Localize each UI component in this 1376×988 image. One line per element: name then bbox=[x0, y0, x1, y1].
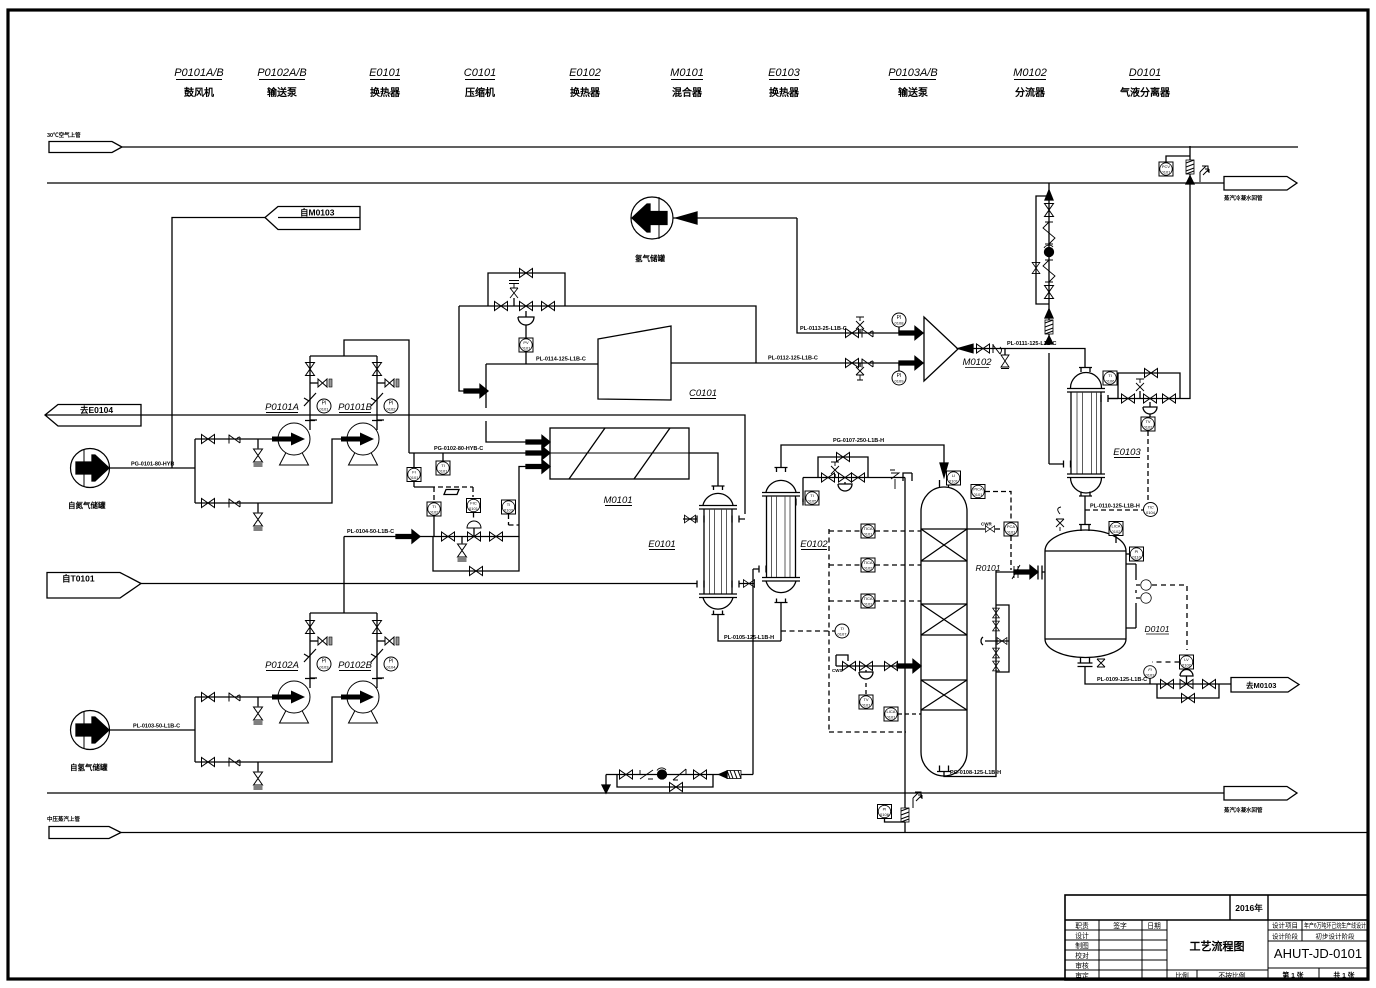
check valve bbox=[371, 649, 383, 662]
control valve with dome below bbox=[838, 473, 852, 491]
check valve bbox=[862, 329, 873, 338]
pipe branch to P0101B bbox=[195, 439, 347, 503]
valve bypass bbox=[837, 453, 850, 462]
instrument TI0103 bbox=[502, 500, 520, 525]
pump P0101B bbox=[338, 402, 379, 465]
tank 自氢气储罐 bbox=[70, 711, 110, 773]
svg-text:TV: TV bbox=[863, 697, 868, 702]
instrument TI0105 bbox=[805, 491, 819, 505]
pipe P0102A discharge riser bbox=[309, 613, 311, 688]
control valve TV0102 with dome below bbox=[1143, 394, 1157, 417]
pipe PG-0101-80-HYB blower suction bbox=[110, 462, 195, 469]
svg-text:去E0104: 去E0104 bbox=[80, 405, 113, 415]
svg-text:分流器: 分流器 bbox=[1015, 86, 1046, 99]
pipe suction header P0101 bbox=[194, 439, 196, 503]
svg-text:PL-0112-125-L1B-C: PL-0112-125-L1B-C bbox=[768, 356, 818, 362]
svg-text:LI: LI bbox=[952, 473, 955, 478]
svg-text:D0101: D0101 bbox=[1129, 67, 1161, 79]
svg-text:换热器: 换热器 bbox=[370, 86, 401, 99]
svg-text:M0102: M0102 bbox=[1013, 67, 1047, 79]
svg-text:P0102A: P0102A bbox=[265, 660, 299, 671]
svg-text:FIC: FIC bbox=[470, 501, 477, 506]
svg-text:签字: 签字 bbox=[1113, 921, 1127, 930]
pipe PL-0104-50-L1B-C benzene feed line bbox=[344, 529, 433, 543]
svg-text:2016年: 2016年 bbox=[1235, 903, 1263, 913]
gauge PI bbox=[892, 363, 906, 385]
svg-text:职责: 职责 bbox=[1075, 921, 1089, 930]
valve bbox=[1203, 680, 1216, 689]
valve bbox=[202, 435, 215, 444]
pipe anti-surge bypass bbox=[459, 306, 756, 391]
svg-text:共 1 张: 共 1 张 bbox=[1333, 971, 1354, 980]
valve bbox=[495, 302, 508, 311]
svg-text:E0102: E0102 bbox=[800, 539, 828, 550]
gauge PI0104 bbox=[372, 657, 398, 679]
svg-text:设计: 设计 bbox=[1075, 931, 1089, 940]
svg-text:自氢气储罐: 自氢气储罐 bbox=[70, 762, 108, 772]
orifice on riser bbox=[901, 808, 909, 822]
valve bbox=[620, 770, 633, 779]
arrow into hydrogen tank bbox=[673, 212, 797, 224]
svg-text:PG-0108-125-L1B-H: PG-0108-125-L1B-H bbox=[950, 770, 1001, 776]
svg-text:0106: 0106 bbox=[1106, 379, 1116, 384]
relief valve bbox=[1136, 379, 1144, 399]
svg-text:日期: 日期 bbox=[1147, 922, 1161, 930]
arrow left bbox=[719, 771, 727, 778]
svg-text:PL-0105-125-L1B-H: PL-0105-125-L1B-H bbox=[724, 635, 774, 641]
pipe bypass below bbox=[433, 537, 519, 572]
control valve LV0102 bbox=[1180, 670, 1193, 689]
arrow into M0102 bbox=[899, 327, 923, 340]
equipment title E0101 换热器 bbox=[369, 67, 401, 99]
svg-text:E0103: E0103 bbox=[1113, 447, 1141, 458]
check valve bbox=[640, 770, 653, 779]
svg-text:0101: 0101 bbox=[439, 469, 449, 474]
valve at E0101 lower-right nozzle bbox=[743, 580, 754, 588]
svg-text:PL-0114-125-L1B-C: PL-0114-125-L1B-C bbox=[536, 357, 586, 363]
pipe bypass over control valve bbox=[818, 457, 868, 478]
svg-text:AHUT-JD-0101: AHUT-JD-0101 bbox=[1274, 946, 1362, 961]
sight glass black bbox=[1044, 245, 1054, 256]
svg-text:鼓风机: 鼓风机 bbox=[184, 86, 214, 99]
pipe PL-0110-125-L1B-H E0103 to D0101 bbox=[1085, 496, 1143, 524]
heat exchanger E0102 bbox=[753, 468, 828, 603]
gauge PI0102 bbox=[372, 399, 398, 421]
valve bbox=[202, 758, 215, 767]
valve bbox=[373, 363, 382, 376]
instruments at top right corner bbox=[1159, 156, 1190, 176]
svg-text:P0101B: P0101B bbox=[338, 402, 372, 413]
svg-text:0101: 0101 bbox=[862, 703, 872, 708]
equipment title P0102A/B 输送泵 bbox=[257, 67, 307, 99]
check valve bbox=[862, 359, 873, 368]
arrow down to condensate header bbox=[602, 785, 610, 793]
svg-text:TI: TI bbox=[432, 504, 436, 509]
pipe P0101B discharge riser bbox=[376, 356, 378, 430]
instrument TV0101 bbox=[859, 683, 873, 709]
svg-text:P0101A/B: P0101A/B bbox=[174, 67, 224, 79]
vent valve bbox=[831, 462, 839, 478]
drawing title 工艺流程图 bbox=[1167, 920, 1268, 980]
level gauge bridle bbox=[981, 605, 1009, 672]
instrument TI0106 bbox=[1103, 371, 1117, 385]
svg-text:0101: 0101 bbox=[1162, 170, 1172, 175]
instrument TICA0102 bbox=[829, 558, 921, 572]
instrument LI0101 bbox=[947, 471, 961, 485]
equipment title P0101A/B 鼓风机 bbox=[174, 67, 224, 99]
svg-text:蒸汽冷凝水回管: 蒸汽冷凝水回管 bbox=[1223, 194, 1263, 202]
angled valve pair bbox=[1043, 260, 1055, 282]
svg-text:0102: 0102 bbox=[430, 510, 440, 515]
pipe compressed hydrogen down to M0101 top inlet bbox=[486, 364, 528, 442]
svg-text:0109: 0109 bbox=[895, 379, 905, 384]
valve on bypass bbox=[670, 783, 683, 792]
hose connection bbox=[310, 637, 332, 645]
pipe steam riser from 中压蒸汽上管 bbox=[904, 478, 906, 833]
svg-text:PL-0103-50-L1B-C: PL-0103-50-L1B-C bbox=[133, 724, 180, 730]
pipe E0102 bottom outlet joins E0101 outlet bbox=[753, 569, 781, 775]
valve bbox=[542, 302, 555, 311]
sight glass bbox=[657, 768, 667, 779]
svg-text:CWS: CWS bbox=[832, 668, 843, 673]
svg-text:0102: 0102 bbox=[387, 407, 397, 412]
flag 自T0101 bbox=[47, 573, 141, 599]
svg-text:0103: 0103 bbox=[864, 602, 874, 607]
hose connection bbox=[310, 379, 332, 387]
arrow into column bbox=[897, 660, 921, 673]
pump P0102A bbox=[265, 660, 310, 723]
arrow up bbox=[1045, 309, 1053, 318]
pipe 30℃空气上管 header line bbox=[47, 131, 1298, 153]
pipe 蒸汽冷凝水回管 bottom line bbox=[47, 787, 1297, 815]
pipe bypass below bbox=[1157, 684, 1219, 698]
pipe control manifold to M0101 bottom inlet bbox=[433, 467, 538, 537]
equipment title D0101 气液分离器 bbox=[1119, 67, 1171, 99]
instrument TV0102 bbox=[1141, 417, 1155, 431]
valve bbox=[1122, 394, 1135, 403]
instrument dashed signal lines bbox=[414, 482, 473, 501]
arrow up bbox=[1045, 336, 1053, 344]
pipe PL-0113-25-L1B-C hydrogen to splitter bbox=[797, 218, 924, 333]
drain valve bbox=[254, 697, 263, 724]
equipment title P0103A/B 输送泵 bbox=[888, 67, 938, 99]
valve bbox=[885, 662, 898, 671]
svg-text:0101: 0101 bbox=[410, 475, 420, 480]
pipe from 自M0103 down to blower suction bbox=[172, 218, 265, 469]
svg-text:TICA: TICA bbox=[863, 596, 872, 601]
check valve bbox=[993, 344, 1002, 354]
packed column R0101 bbox=[921, 480, 967, 776]
svg-text:PG-0101-80-HYB: PG-0101-80-HYB bbox=[131, 462, 174, 468]
svg-text:PL-0109-125-L1B-C: PL-0109-125-L1B-C bbox=[1097, 677, 1147, 683]
vent valve on stub bbox=[509, 281, 519, 307]
tank 自氮气储罐 bbox=[68, 449, 110, 511]
valve bbox=[694, 770, 707, 779]
svg-text:工艺流程图: 工艺流程图 bbox=[1190, 939, 1245, 953]
svg-text:PL-0104-50-L1B-C: PL-0104-50-L1B-C bbox=[347, 529, 394, 535]
instrument dashed boundary bbox=[829, 529, 906, 732]
valve bbox=[202, 693, 215, 702]
pipe PL-0114-125-L1B-C compressor suction bbox=[486, 357, 598, 365]
pipe branch to P0102B bbox=[195, 697, 347, 762]
svg-text:TICA: TICA bbox=[863, 526, 872, 531]
gauge PI0101 bbox=[305, 399, 331, 421]
pipe branch to P0102A bbox=[195, 696, 278, 698]
bypass loop left bbox=[1036, 196, 1049, 304]
instrument TIC0104 bbox=[1144, 503, 1158, 517]
svg-text:审核: 审核 bbox=[1075, 961, 1089, 970]
valve bbox=[490, 532, 503, 541]
drain valve bbox=[254, 762, 263, 789]
valve bbox=[1045, 286, 1054, 299]
pipe E0103 tube outlet to top header bbox=[1108, 146, 1190, 399]
svg-text:TIC: TIC bbox=[1147, 505, 1154, 510]
signature table bbox=[1065, 920, 1167, 980]
svg-text:0103: 0103 bbox=[504, 508, 514, 513]
title block frame bbox=[1065, 895, 1368, 980]
svg-text:E0101: E0101 bbox=[369, 67, 401, 79]
svg-text:E0102: E0102 bbox=[569, 67, 601, 79]
check valve bbox=[229, 758, 240, 767]
svg-text:0102: 0102 bbox=[1182, 663, 1192, 668]
svg-text:0104: 0104 bbox=[387, 665, 397, 670]
valve on bypass bbox=[1032, 262, 1040, 273]
inlet arrow middle bbox=[526, 447, 550, 460]
check valve bbox=[229, 435, 240, 444]
equipment title M0102 分流器 bbox=[1013, 67, 1047, 99]
level gauge on right bbox=[1126, 564, 1151, 628]
svg-text:LICA: LICA bbox=[887, 709, 896, 714]
valve bbox=[822, 473, 835, 482]
svg-text:C0101: C0101 bbox=[689, 388, 717, 399]
svg-text:P0102A/B: P0102A/B bbox=[257, 67, 307, 79]
vent valve below bbox=[856, 363, 864, 380]
instrument TI circle bbox=[781, 624, 849, 638]
instrument TICA0103 bbox=[829, 594, 921, 608]
pump P0101A bbox=[265, 402, 310, 465]
valve bbox=[1163, 394, 1176, 403]
instrument FI0101 bbox=[407, 453, 421, 482]
valve bbox=[202, 499, 215, 508]
svg-text:PG-0107-250-L1B-H: PG-0107-250-L1B-H bbox=[833, 438, 884, 444]
strainer bbox=[673, 769, 686, 780]
equipment title E0103 换热器 bbox=[768, 67, 801, 99]
pipe cws inlet manifold to column bbox=[832, 655, 908, 673]
svg-text:LICA: LICA bbox=[1112, 524, 1121, 529]
valve on bypass bbox=[1145, 369, 1158, 378]
valve bbox=[977, 344, 990, 353]
hose connection bbox=[377, 637, 399, 645]
svg-text:TI: TI bbox=[1108, 373, 1112, 378]
svg-text:输送泵: 输送泵 bbox=[898, 86, 929, 99]
heat exchanger E0101 bbox=[648, 486, 754, 615]
svg-text:设计阶段: 设计阶段 bbox=[1272, 932, 1299, 941]
svg-text:PCA: PCA bbox=[1007, 524, 1016, 529]
instrument PI0110 bbox=[1126, 547, 1144, 561]
hose connection bbox=[377, 379, 399, 387]
svg-text:氢气储罐: 氢气储罐 bbox=[635, 253, 665, 263]
equipment title M0101 混合器 bbox=[670, 67, 704, 99]
instrument LICA0101 bbox=[884, 707, 921, 721]
pipe condensate from E0103 shell to header bbox=[1048, 183, 1050, 464]
signal dashed to level valve bbox=[1152, 585, 1187, 650]
arrow into M0102 bbox=[899, 357, 923, 370]
valve bbox=[1161, 680, 1174, 689]
equipment title E0102 换热器 bbox=[569, 67, 601, 99]
compressor C0101 bbox=[598, 326, 717, 400]
pipe PG-0102-80-HYB-C to mixer bbox=[409, 446, 539, 453]
svg-text:换热器: 换热器 bbox=[570, 86, 601, 99]
steam trap bbox=[1200, 166, 1209, 182]
instrument TI0101 bbox=[436, 453, 450, 475]
svg-text:PG-0102-80-HYB-C: PG-0102-80-HYB-C bbox=[434, 446, 483, 452]
svg-text:自T0101: 自T0101 bbox=[62, 574, 95, 584]
inlet arrow bottom bbox=[526, 460, 550, 473]
pipe branch to P0101A bbox=[195, 438, 278, 440]
valve bbox=[852, 473, 865, 482]
signal dashed to PCA bbox=[985, 492, 1011, 523]
instrument PICA0101 bbox=[971, 485, 985, 499]
relief valve column top bbox=[890, 470, 912, 489]
svg-text:0104: 0104 bbox=[1146, 510, 1156, 515]
svg-text:LV: LV bbox=[1184, 657, 1189, 662]
valve bbox=[373, 621, 382, 634]
svg-text:0103: 0103 bbox=[1146, 673, 1156, 678]
svg-text:D0101: D0101 bbox=[1144, 624, 1169, 634]
valve bbox=[306, 621, 315, 634]
valve bypass bbox=[470, 567, 483, 576]
check valve bbox=[371, 393, 383, 406]
mixer M0101 bbox=[550, 428, 689, 506]
svg-text:比例: 比例 bbox=[1175, 971, 1189, 980]
heat exchanger E0103 bbox=[1049, 368, 1141, 497]
svg-text:输送泵: 输送泵 bbox=[267, 86, 298, 99]
drain valve bbox=[254, 439, 263, 466]
svg-text:制图: 制图 bbox=[1075, 941, 1089, 950]
pipe suction header P0102 bbox=[194, 697, 196, 762]
svg-text:E0101: E0101 bbox=[648, 539, 675, 550]
pipe PL-0111-125-L1B-C splitter to E0103 bbox=[958, 341, 1085, 367]
pipe steam manifold bbox=[803, 477, 905, 479]
pipe E0102 right nozzle riser to steam manifold bbox=[802, 478, 804, 503]
svg-text:PL-0110-125-L1B-H: PL-0110-125-L1B-H bbox=[1090, 504, 1140, 510]
svg-text:自M0103: 自M0103 bbox=[300, 208, 335, 218]
svg-text:PV: PV bbox=[523, 340, 529, 345]
pipe bypass below bbox=[617, 775, 713, 788]
svg-text:TI: TI bbox=[441, 463, 445, 468]
svg-text:M0101: M0101 bbox=[670, 67, 704, 79]
svg-text:0102: 0102 bbox=[1144, 425, 1154, 430]
svg-text:0101: 0101 bbox=[864, 532, 874, 537]
gauge PI0103 bbox=[305, 657, 331, 679]
splitter M0102 bbox=[924, 317, 992, 381]
equipment title C0101 压缩机 bbox=[464, 67, 496, 99]
svg-text:30℃空气上管: 30℃空气上管 bbox=[47, 131, 81, 139]
svg-text:PI: PI bbox=[883, 807, 887, 812]
svg-text:年产6万吨环己烷生产线设计: 年产6万吨环己烷生产线设计 bbox=[1304, 921, 1366, 930]
pipe column bottom PG-0108-125-L1B-H bbox=[944, 570, 1001, 777]
check valve bbox=[229, 499, 240, 508]
pipe bypass above bbox=[1118, 373, 1180, 399]
pipe PL-0103-50-L1B-C pump suction bbox=[110, 724, 195, 731]
control valve FV with dome bbox=[467, 521, 481, 541]
svg-text:0101: 0101 bbox=[887, 715, 897, 720]
top row dividers bbox=[1065, 895, 1368, 920]
svg-text:PL-0113-25-L1B-C: PL-0113-25-L1B-C bbox=[800, 326, 847, 332]
svg-text:PI: PI bbox=[1135, 549, 1139, 554]
flag 自M0103 bbox=[265, 207, 360, 230]
svg-text:蒸汽冷凝水回管: 蒸汽冷凝水回管 bbox=[1223, 806, 1263, 814]
svg-text:0107: 0107 bbox=[838, 632, 848, 637]
tank 氢气储罐 bbox=[631, 197, 673, 263]
svg-text:0101: 0101 bbox=[522, 346, 532, 351]
svg-text:0103: 0103 bbox=[320, 665, 330, 670]
svg-text:自氮气储罐: 自氮气储罐 bbox=[68, 500, 106, 510]
steam trap zigzag bbox=[1043, 222, 1055, 244]
valve bbox=[442, 532, 455, 541]
svg-text:混合器: 混合器 bbox=[672, 86, 703, 99]
pipe discharge header P0101 to PG-0102 line bbox=[310, 340, 409, 453]
svg-text:去M0103: 去M0103 bbox=[1246, 680, 1276, 690]
svg-text:PICA: PICA bbox=[973, 487, 983, 492]
gauge FI circle bbox=[1144, 666, 1157, 684]
instrument PCA0101 bbox=[1004, 522, 1018, 570]
instrument TICA0101 bbox=[829, 524, 921, 538]
arrow up bbox=[1045, 190, 1053, 200]
pipe 蒸汽冷凝水回管 top header line bbox=[47, 177, 1297, 203]
drain valve bbox=[458, 537, 467, 562]
valve on hydrogen inlet bbox=[846, 329, 859, 338]
control valve PV0101 bbox=[518, 302, 534, 339]
svg-text:0101: 0101 bbox=[1007, 530, 1017, 535]
svg-text:第 1 张: 第 1 张 bbox=[1282, 971, 1303, 980]
pump P0102B bbox=[338, 660, 379, 723]
svg-text:0101: 0101 bbox=[974, 492, 984, 497]
pipe bypass upper loop bbox=[488, 273, 565, 306]
svg-text:P0102B: P0102B bbox=[338, 660, 372, 671]
svg-text:TI: TI bbox=[507, 502, 511, 507]
svg-text:校对: 校对 bbox=[1075, 951, 1089, 960]
svg-text:不按比例: 不按比例 bbox=[1218, 971, 1245, 980]
inlet arrow top bbox=[526, 436, 550, 449]
valve on bypass bbox=[1182, 694, 1195, 703]
svg-text:0110: 0110 bbox=[1132, 555, 1141, 560]
svg-text:PCV: PCV bbox=[1162, 164, 1171, 169]
pipe PL-0112-125-L1B-C compressor discharge bbox=[671, 356, 924, 364]
vent valve on top bbox=[1056, 507, 1064, 531]
svg-text:初步设计阶段: 初步设计阶段 bbox=[1316, 932, 1356, 941]
instrument PV0101 bbox=[519, 338, 533, 364]
pipe M0101 outlet to E0101 bbox=[689, 453, 718, 486]
svg-text:TICA: TICA bbox=[863, 560, 872, 565]
pipe main process line to 去E0104 bbox=[141, 415, 745, 514]
pipe E0101 bottom outlet bbox=[718, 615, 781, 642]
drain valve at bottom bbox=[1097, 659, 1105, 667]
svg-text:0108: 0108 bbox=[895, 321, 905, 326]
svg-text:中压蒸汽上管: 中压蒸汽上管 bbox=[47, 815, 81, 823]
svg-text:FI: FI bbox=[412, 470, 416, 475]
svg-text:0101: 0101 bbox=[320, 407, 330, 412]
svg-text:0102: 0102 bbox=[1112, 529, 1122, 534]
svg-text:0105: 0105 bbox=[808, 499, 818, 504]
arrow bbox=[464, 385, 488, 398]
svg-text:M0101: M0101 bbox=[603, 495, 632, 506]
valve bbox=[843, 662, 856, 671]
flag 去E0104 bbox=[45, 405, 141, 427]
vent valve above bbox=[856, 317, 864, 333]
svg-text:P0103A/B: P0103A/B bbox=[888, 67, 938, 79]
instrument LICA0102 bbox=[1109, 522, 1123, 544]
